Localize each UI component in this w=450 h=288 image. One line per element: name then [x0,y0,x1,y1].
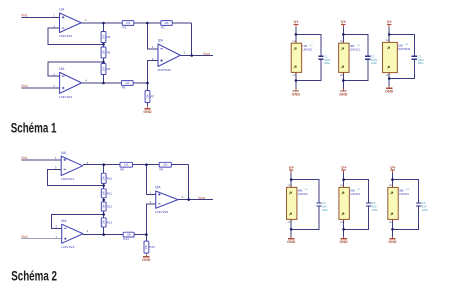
svg-text:I4A: I4A [61,151,67,155]
svg-text:220n: 220n [372,208,378,212]
svg-text:10k: 10k [102,204,106,209]
svg-text:P$1: P$1 [293,41,296,43]
svg-text:I3A: I3A [59,67,65,71]
svg-text:GND: GND [292,92,301,96]
svg-text:10k: 10k [102,191,106,196]
svg-text:V+: V+ [289,165,295,170]
svg-text:R15: R15 [150,245,156,249]
svg-text:LMV321: LMV321 [59,34,73,38]
svg-text:R3: R3 [107,35,111,39]
svg-text:I5A: I5A [155,186,161,190]
svg-text:R5: R5 [107,67,111,71]
svg-text:10k: 10k [164,21,169,25]
svg-text:I5B: I5B [350,188,355,192]
svg-text:I2B: I2B [398,43,403,47]
svg-text:10k: 10k [127,233,132,237]
svg-text:LMV321: LMV321 [399,192,410,196]
svg-text:10k: 10k [101,34,105,39]
svg-text:LMV321: LMV321 [61,177,75,181]
svg-text:LMV321: LMV321 [350,192,361,196]
svg-text:I1B: I1B [302,44,307,48]
svg-text:V+: V+ [387,19,393,24]
svg-text:GND: GND [385,90,394,94]
svg-text:I2A: I2A [158,39,164,43]
svg-text:220n: 220n [422,208,428,212]
svg-text:R2: R2 [161,26,165,30]
svg-text:P$1: P$1 [386,40,389,42]
svg-text:220n: 220n [322,208,328,212]
svg-text:10k: 10k [102,176,106,181]
svg-text:MCP6540: MCP6540 [158,68,172,72]
svg-text:Vin1: Vin1 [21,14,28,18]
svg-text:GND: GND [388,240,397,244]
svg-text:10k: 10k [125,81,130,85]
svg-text:LMV321: LMV321 [302,48,313,52]
svg-text:LMV321: LMV321 [155,210,169,214]
svg-text:R13: R13 [107,220,113,224]
svg-text:LMV321: LMV321 [298,192,309,196]
svg-text:P$1: P$1 [288,185,291,187]
svg-text:R9: R9 [159,167,163,171]
svg-text:GND: GND [287,240,296,244]
svg-text:R7: R7 [151,95,155,99]
svg-text:I6A: I6A [61,219,67,223]
svg-text:R12: R12 [107,205,113,209]
svg-text:P$2: P$2 [293,75,296,77]
svg-text:100n: 100n [371,61,377,65]
svg-text:P$2: P$2 [340,75,343,77]
svg-text:LMV321: LMV321 [61,245,75,249]
svg-text:Schéma 2: Schéma 2 [11,268,57,284]
svg-text:R8: R8 [120,167,124,171]
svg-text:LMV321: LMV321 [59,95,73,99]
svg-text:Schéma 1: Schéma 1 [11,119,57,135]
svg-text:P$1: P$1 [389,185,392,187]
svg-text:Vout: Vout [198,196,205,200]
svg-text:I4B: I4B [298,188,303,192]
svg-text:R11: R11 [107,191,112,195]
svg-text:R14: R14 [123,237,129,241]
svg-text:I1A: I1A [59,8,65,12]
svg-text:Vin1: Vin1 [21,156,28,160]
svg-text:R4: R4 [107,51,111,55]
svg-text:GND: GND [339,92,348,96]
svg-text:LMV321: LMV321 [350,48,361,52]
svg-text:100n: 100n [324,61,330,65]
svg-text:V+: V+ [341,19,347,24]
svg-text:V+: V+ [390,165,396,170]
svg-text:Vin2: Vin2 [21,84,28,88]
svg-text:P$2: P$2 [389,222,392,224]
svg-text:10k: 10k [163,163,168,167]
svg-text:10k: 10k [144,244,148,249]
svg-text:P$2: P$2 [386,75,389,77]
svg-text:GND: GND [142,258,151,262]
svg-text:10k: 10k [126,21,131,25]
svg-text:10k: 10k [101,66,105,71]
svg-text:I3B: I3B [350,44,355,48]
svg-text:10k: 10k [101,50,105,55]
svg-text:P$2: P$2 [288,222,291,224]
svg-text:10k: 10k [124,163,129,167]
svg-text:V+: V+ [341,165,347,170]
svg-text:P$1: P$1 [340,41,343,43]
svg-text:MCP6540: MCP6540 [398,47,410,51]
svg-text:P$2: P$2 [340,222,343,224]
svg-text:V+: V+ [293,19,299,24]
svg-text:Vin2: Vin2 [21,235,28,239]
svg-text:GND: GND [339,240,348,244]
svg-text:R6: R6 [122,86,126,90]
svg-text:10k: 10k [102,220,106,225]
svg-text:100n: 100n [418,61,424,65]
svg-text:P$1: P$1 [340,185,343,187]
svg-text:R1: R1 [123,26,127,30]
svg-text:I6B: I6B [399,188,404,192]
svg-text:Vout: Vout [203,52,210,56]
svg-text:GND: GND [143,110,152,114]
svg-text:10k: 10k [145,94,149,99]
svg-text:R10: R10 [107,176,113,180]
